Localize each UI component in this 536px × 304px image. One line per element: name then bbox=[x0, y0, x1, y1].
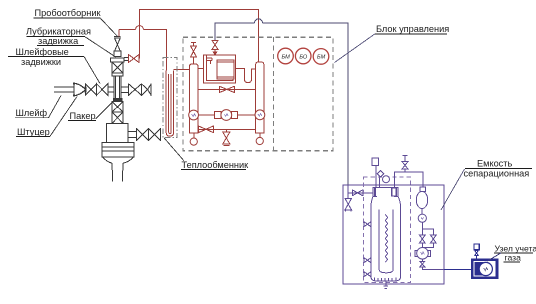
small gauge circle bbox=[421, 208, 423, 214]
metering meter circle bbox=[479, 262, 492, 275]
line recorder to left cylinder bbox=[198, 68, 204, 70]
svg-text:Емкость: Емкость bbox=[477, 158, 512, 168]
lower gate valve 1 bbox=[137, 128, 149, 141]
svg-text:Блок управления: Блок управления bbox=[376, 24, 449, 34]
column band bbox=[112, 73, 123, 76]
gauge mark bbox=[421, 217, 424, 219]
gauge marks inside circles bbox=[192, 114, 262, 117]
svg-text:Шлейфовые: Шлейфовые bbox=[16, 47, 69, 57]
metering connector valve bbox=[475, 251, 478, 260]
manifold circle BO bbox=[295, 48, 311, 64]
vent line from vessel bbox=[394, 172, 422, 188]
inlet shutoff valve bbox=[352, 190, 363, 197]
left nozzle bar bbox=[374, 188, 376, 197]
svg-text:сепарационная: сепарационная bbox=[464, 169, 530, 179]
regulator capsule bbox=[420, 187, 426, 192]
hop over red line bbox=[255, 19, 263, 23]
red impulse line B : sampling valve to control block bbox=[140, 9, 259, 61]
pressure gauge diamond bbox=[377, 171, 383, 188]
heat exchanger coil inner U bbox=[169, 74, 172, 134]
heat exchanger coil outer U bbox=[166, 70, 173, 136]
right mercury cylinder bbox=[256, 62, 264, 133]
line hop at x139.5 bbox=[136, 26, 144, 30]
vent valve (to atmosphere) bbox=[402, 155, 408, 172]
svg-text:БО: БО bbox=[299, 54, 308, 60]
gas counter wings bbox=[415, 250, 418, 256]
line skid to metering unit bbox=[444, 269, 472, 271]
dome weld line bbox=[373, 196, 398, 198]
flowline gate valve 1 bbox=[85, 84, 96, 95]
gauge line y115 bbox=[199, 114, 215, 116]
right cylinder drain circle bbox=[259, 133, 261, 137]
column X-section 2 bbox=[112, 102, 123, 112]
wellhead base block bbox=[107, 123, 129, 142]
pump wings bbox=[215, 112, 221, 119]
sample tap 3 bbox=[364, 271, 371, 277]
heat exchanger dash-dot box bbox=[163, 58, 177, 138]
METERING_GROUP bbox=[444, 244, 497, 278]
equalizing valve bbox=[220, 86, 235, 93]
inlet drain valve (vertical) bbox=[345, 199, 352, 212]
svg-text:Пробоотборник: Пробоотборник bbox=[35, 8, 102, 18]
vessel dashed enclosure bbox=[364, 177, 411, 283]
outlet line to metering bbox=[422, 267, 444, 270]
packer (dark band) bbox=[113, 99, 122, 102]
svg-text:Лубрикаторная: Лубрикаторная bbox=[26, 27, 91, 37]
metering unit box bbox=[472, 260, 497, 278]
right level gauge circle bbox=[255, 110, 265, 120]
svg-text:задвижка: задвижка bbox=[38, 36, 79, 46]
WELLHEAD_RED bbox=[119, 9, 259, 136]
inlet line into skid bbox=[348, 185, 373, 199]
stub column right bbox=[121, 86, 129, 88]
inner tube bbox=[379, 210, 393, 273]
vessel drain bbox=[383, 281, 388, 289]
drain valve below bbox=[223, 129, 230, 145]
casing tube bbox=[112, 163, 123, 181]
metering flow computer square bbox=[474, 244, 479, 250]
lubricator valve (vertical bowtie, wellhead top) bbox=[115, 38, 121, 51]
counter mark bbox=[421, 252, 425, 255]
control block outer dashed box bbox=[183, 37, 333, 151]
vessel shell bbox=[371, 188, 401, 277]
equalizing line y89 bbox=[198, 88, 256, 90]
svg-text:Теплообменник: Теплообменник bbox=[182, 160, 250, 170]
metering unit fill block bbox=[475, 262, 484, 276]
control block inner dashed divider bbox=[273, 37, 275, 151]
svg-text:газа: газа bbox=[505, 253, 522, 263]
manifold circle BM2 bbox=[313, 49, 329, 65]
right gate valve 1 bbox=[129, 83, 142, 96]
sample tap 1 bbox=[364, 221, 371, 227]
right nozzle bbox=[392, 188, 397, 196]
pressure gauge circle bbox=[383, 176, 390, 183]
flowline gate valve 2 bbox=[97, 84, 108, 95]
down line and bypass bbox=[422, 222, 433, 247]
vessel bottom bbox=[371, 277, 401, 281]
meter mark bbox=[484, 268, 488, 271]
U-trap right of recorder bbox=[236, 69, 256, 83]
right gate valve 2 bbox=[142, 83, 152, 96]
heat exchanger outlet to control block bbox=[174, 69, 190, 71]
manifold circle BM1 bbox=[278, 48, 294, 64]
tubing section bbox=[114, 76, 121, 99]
stub to column left bbox=[108, 86, 114, 88]
circle labels bbox=[281, 54, 325, 60]
vent valve above left cylinder bbox=[191, 42, 197, 64]
base flange bbox=[102, 143, 134, 158]
red impulse line A : sampler to heat exchanger bbox=[119, 30, 167, 71]
counter outlet valve bbox=[420, 259, 425, 267]
recorder drum bbox=[217, 60, 234, 79]
flowline pipe (шлейф) bbox=[54, 86, 74, 88]
bypass valve right bbox=[430, 235, 436, 243]
pump circle bbox=[221, 110, 232, 121]
lubricator body bbox=[114, 51, 121, 57]
svg-text:Штуцер: Штуцер bbox=[17, 127, 50, 137]
left cylinder drain circle bbox=[193, 133, 195, 138]
left mercury cylinder bbox=[190, 64, 199, 133]
column X-section 1 bbox=[112, 62, 123, 73]
vessel bottom bolts bbox=[375, 277, 397, 281]
lower valve bbox=[199, 126, 214, 134]
svg-text:задвижки: задвижки bbox=[21, 57, 61, 67]
lower gate valve 2 bbox=[149, 128, 161, 141]
sampling valve (red, right of lubricator) bbox=[129, 54, 140, 63]
stub to sampling valve bbox=[124, 57, 129, 59]
sampler tick bbox=[114, 36, 121, 38]
upper flange bbox=[111, 58, 125, 62]
bypass valve left bbox=[419, 235, 425, 243]
lower stub from base bbox=[128, 131, 137, 133]
column X-section 3 bbox=[112, 112, 123, 123]
level indicator box on stem bbox=[372, 158, 378, 165]
inlet valve above recorder bbox=[212, 39, 218, 56]
svg-text:БМ: БМ bbox=[317, 55, 326, 61]
choke cone (штуцер) bbox=[74, 83, 85, 96]
navy control line to separator bbox=[215, 19, 348, 185]
lower line y129 bbox=[198, 128, 256, 130]
left level gauge circle bbox=[189, 110, 199, 120]
recorder box bbox=[204, 55, 236, 83]
sample tap 2 bbox=[364, 257, 371, 263]
svg-text:Шлейф: Шлейф bbox=[16, 108, 48, 118]
gas counter circle bbox=[417, 248, 429, 260]
separator skid frame bbox=[343, 185, 444, 284]
casing taper bbox=[103, 157, 134, 163]
zigzag level spring bbox=[385, 215, 387, 263]
svg-text:БМ: БМ bbox=[281, 54, 290, 60]
recorder pen bar bbox=[207, 58, 213, 61]
svg-text:Пакер: Пакер bbox=[70, 111, 96, 121]
